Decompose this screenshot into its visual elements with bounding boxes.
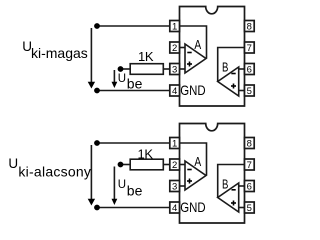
wire pin 6 to op-amp B inverting input (bottom IC) — [239, 185, 245, 187]
wire op-amp B output to pin 7 (internal, top IC) — [218, 48, 245, 82]
svg-text:5: 5 — [247, 86, 252, 97]
svg-text:1K: 1K — [138, 147, 154, 162]
pin 1 (top IC) — [170, 21, 180, 33]
label U ki-magas — [22, 39, 87, 61]
svg-text:B: B — [222, 60, 228, 75]
pin 6 (bottom IC) — [245, 181, 255, 193]
pin 2 (top IC) — [170, 42, 180, 54]
pin 4 (top IC) — [170, 85, 180, 97]
svg-text:be: be — [127, 76, 143, 92]
svg-text:6: 6 — [247, 65, 252, 76]
wire pin 1 to op-amp A output (internal, bottom IC) — [180, 143, 207, 176]
wire pin 2 to op-amp A inverting input (bottom IC) — [180, 164, 186, 166]
resistor R2 1K — [130, 159, 163, 170]
svg-text:7: 7 — [247, 43, 252, 54]
label U be (top circuit) — [118, 73, 143, 92]
svg-text:2: 2 — [172, 160, 177, 171]
wire input terminal to resistor R1 — [121, 68, 131, 70]
svg-text:U: U — [118, 73, 126, 85]
op-amp A minus sign (bottom IC) — [187, 169, 191, 171]
wire input terminal to resistor R2 — [121, 164, 131, 166]
op-amp B minus sign (bottom IC) — [232, 189, 236, 191]
pin 3 (bottom IC) — [170, 181, 180, 193]
op-amp A (bottom IC) — [185, 161, 206, 190]
svg-text:A: A — [194, 37, 201, 52]
svg-text:1K: 1K — [138, 49, 154, 64]
wire output-high terminal to pin 1 — [97, 25, 170, 27]
node input terminal (bottom circuit) — [118, 162, 124, 168]
svg-text:3: 3 — [172, 182, 177, 193]
pin 8 (top IC) — [245, 21, 255, 33]
wire ground terminal to pin 4 — [97, 90, 170, 92]
pin 7 (bottom IC) — [245, 159, 255, 171]
op-amp A (top IC) — [185, 44, 206, 73]
node ground terminal (top circuit) — [94, 88, 100, 94]
svg-text:1: 1 — [172, 22, 177, 33]
wire pin 3 to op-amp A non-inverting input — [180, 68, 186, 70]
wire pin 5 to op-amp B non-inverting input (bottom IC) — [239, 207, 245, 209]
op-amp B plus sign (bottom IC) — [231, 201, 236, 206]
pin 8 (bottom IC) — [245, 138, 255, 150]
resistor R1 1K — [130, 64, 163, 75]
pin 4 (bottom IC) — [170, 202, 180, 214]
svg-text:U: U — [8, 156, 18, 171]
wire pin 1 to op-amp A output (internal) — [180, 26, 207, 59]
wire ground terminal to pin 4 (bottom circuit) — [97, 207, 170, 209]
pin 2 (bottom IC) — [170, 159, 180, 171]
voltage arrow U ki-alacsony — [88, 145, 95, 206]
node ground terminal (bottom circuit) — [94, 205, 100, 211]
op-amp B (bottom IC) — [218, 183, 239, 212]
op-amp B minus sign (top IC) — [231, 73, 235, 75]
svg-text:3: 3 — [172, 65, 177, 76]
wire resistor R1 to pin 3 — [163, 68, 170, 70]
wire output-low terminal to pin 1 (bottom circuit) — [97, 142, 170, 144]
pin 5 (top IC) — [245, 85, 255, 97]
svg-text:GND: GND — [180, 199, 205, 215]
IC U2 DIP-8 body — [180, 124, 245, 224]
svg-text:B: B — [222, 177, 228, 192]
wire pin 5 to op-amp B non-inverting input (top IC) — [239, 90, 245, 92]
op-amp A plus sign — [187, 62, 192, 67]
voltage arrow U ki-magas — [88, 28, 95, 89]
wire pin 3 to op-amp A non-inverting input (bottom IC) — [180, 185, 186, 187]
svg-text:A: A — [194, 154, 201, 169]
wire pin 6 to op-amp B inverting input (top IC) — [239, 68, 245, 70]
pin 6 (top IC) — [245, 64, 255, 76]
op-amp A minus sign — [187, 52, 191, 54]
svg-text:be: be — [127, 183, 143, 199]
svg-text:2: 2 — [172, 43, 177, 54]
node input terminal (top circuit) — [118, 66, 124, 72]
wire resistor R2 to pin 2 (bottom circuit) — [163, 164, 170, 166]
voltage arrow U be (top circuit) — [112, 70, 118, 88]
pin 3 (top IC) — [170, 64, 180, 76]
wire op-amp B output to pin 7 (internal, bottom IC) — [218, 165, 245, 198]
op-amp A plus sign (bottom IC) — [187, 179, 192, 184]
label U be (bottom circuit) — [118, 179, 143, 199]
wire pin 2 to op-amp A inverting input — [180, 47, 186, 49]
svg-text:4: 4 — [172, 86, 177, 97]
svg-text:GND: GND — [180, 82, 205, 98]
pin 7 (top IC) — [245, 42, 255, 54]
svg-text:7: 7 — [247, 160, 252, 171]
svg-text:5: 5 — [247, 203, 252, 214]
op-amp B plus sign (top IC) — [231, 84, 236, 89]
svg-text:8: 8 — [247, 22, 252, 33]
svg-text:4: 4 — [172, 203, 177, 214]
svg-text:8: 8 — [247, 139, 252, 150]
svg-text:ki-magas: ki-magas — [31, 45, 88, 61]
op-amp B (top IC) — [218, 67, 239, 96]
IC U1 DIP-8 body — [180, 7, 245, 107]
label U ki-alacsony — [8, 156, 91, 180]
svg-text:U: U — [118, 179, 126, 191]
voltage arrow U be (bottom circuit) — [112, 167, 118, 206]
svg-text:1: 1 — [172, 139, 177, 150]
node output-high terminal — [94, 23, 100, 29]
svg-text:ki-alacsony: ki-alacsony — [18, 164, 91, 180]
pin 5 (bottom IC) — [245, 202, 255, 214]
pin 1 (bottom IC) — [170, 138, 180, 150]
node output-low terminal — [94, 140, 100, 146]
svg-text:6: 6 — [247, 182, 252, 193]
